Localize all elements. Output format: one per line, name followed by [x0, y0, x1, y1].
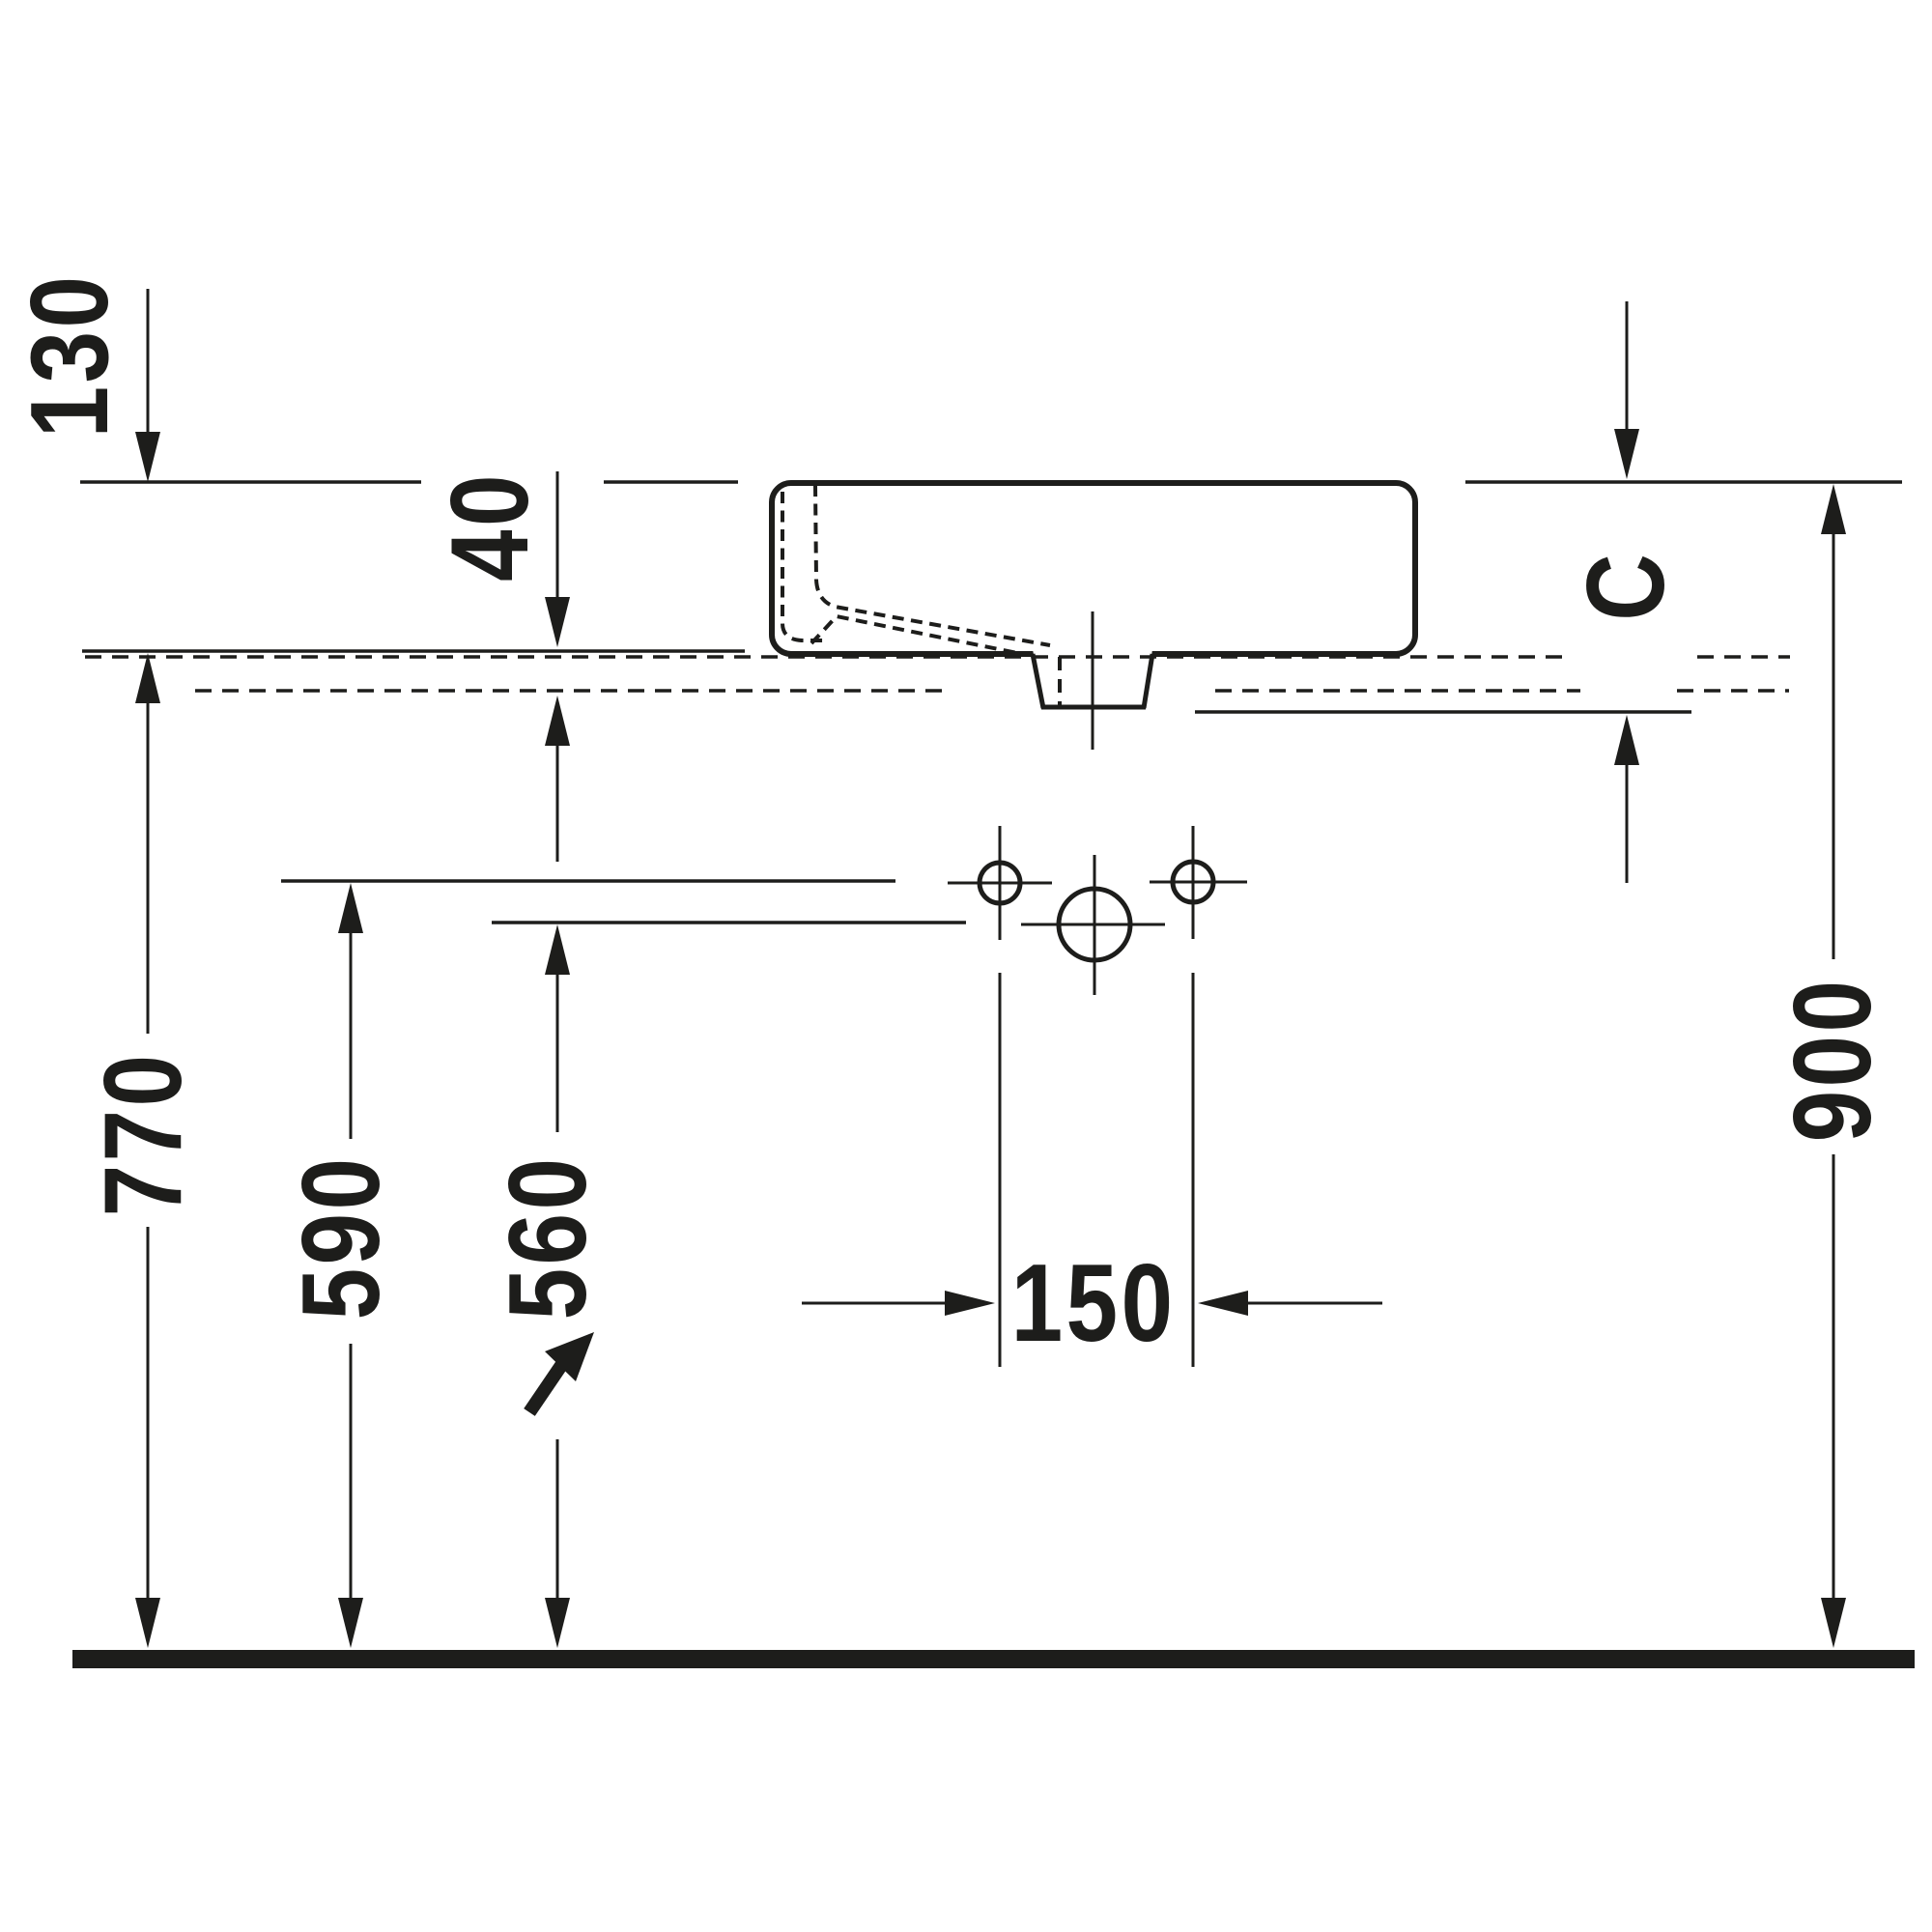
faucet hole right: [1150, 826, 1247, 1367]
svg-text:130: 130: [8, 273, 130, 439]
faucet hole left: [948, 826, 1052, 1367]
svg-text:150: 150: [1011, 1241, 1177, 1364]
reference line C bottom: [1195, 710, 1691, 714]
dimension C: [1564, 301, 1687, 883]
floor line: [72, 1650, 1915, 1668]
countertop dashed line upper: [85, 655, 1790, 659]
drain centerline: [1092, 611, 1094, 750]
extension line holes 590: [281, 879, 895, 883]
svg-text:590: 590: [279, 1155, 402, 1321]
countertop dashed line lower: [195, 689, 1789, 693]
svg-text:900: 900: [1771, 978, 1893, 1143]
dimension 560: [486, 924, 609, 1648]
dimension 590: [279, 883, 402, 1648]
basin interior dashed profile: [782, 485, 1050, 654]
dimension 900: [1771, 484, 1893, 1648]
extension line basin top (left segments): [80, 480, 738, 484]
dimension 150: [802, 1241, 1382, 1364]
svg-text:770: 770: [81, 1052, 204, 1217]
svg-text:560: 560: [486, 1155, 609, 1321]
dimension 130: [8, 273, 160, 482]
basin outline: [772, 483, 1415, 654]
drain outlet: [1033, 649, 1152, 709]
svg-text:40: 40: [428, 471, 551, 582]
svg-text:C: C: [1564, 554, 1687, 621]
countertop solid line: [82, 649, 745, 653]
drain dashed outlet line: [1058, 657, 1062, 706]
extension line basin top (right segment): [1465, 480, 1902, 484]
dimension 40: [428, 471, 570, 862]
faucet hole center: [1021, 855, 1165, 995]
adjustable height arrow symbol: [529, 1364, 562, 1412]
extension line hole 560: [492, 921, 966, 924]
dimension 770: [81, 653, 204, 1648]
